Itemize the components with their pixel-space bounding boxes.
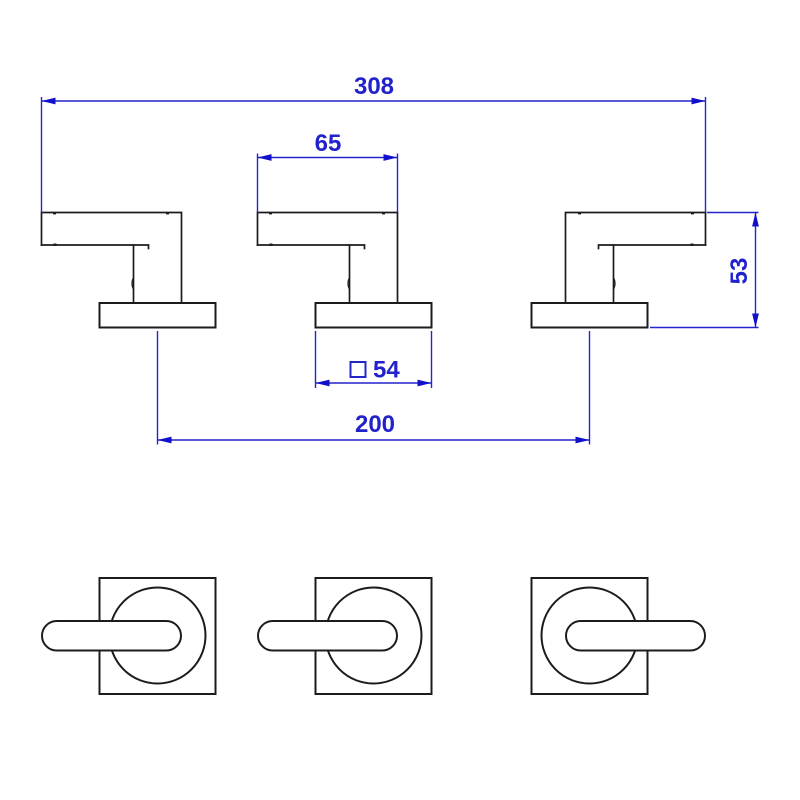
dim 200 line [158, 439, 590, 441]
dim 65 arrows [258, 154, 272, 161]
left handle neck arc [132, 278, 134, 290]
dim 54 arrows [316, 380, 330, 387]
middle handle base plate [316, 303, 432, 328]
dim 53 arrows [752, 213, 759, 227]
dim 54 extension lines [315, 331, 317, 388]
middle lever front [258, 621, 397, 651]
svg-text:65: 65 [315, 130, 342, 157]
left handle base plate [100, 303, 216, 328]
dim 54 line [316, 382, 432, 384]
dim 308 arrows [42, 98, 56, 105]
right handle neck arc [614, 278, 616, 290]
square symbol of 54 [351, 362, 366, 377]
dim 53 extension lines [707, 212, 759, 214]
dim 53 line [755, 213, 757, 328]
middle handle neck arc [348, 278, 350, 290]
svg-text:200: 200 [355, 411, 395, 438]
left handle stem edge [133, 245, 135, 303]
dim 200 extension lines [157, 331, 159, 445]
right handle stem edge [613, 245, 615, 303]
left handle lever outline [42, 213, 182, 304]
dim 65 line [258, 157, 398, 159]
middle handle lever underside [258, 245, 365, 249]
svg-text:308: 308 [354, 73, 394, 100]
middle handle stem edge [349, 245, 351, 303]
middle handle lever outline [258, 213, 398, 304]
right flange circle [542, 588, 638, 684]
dim 308 extension lines [41, 97, 43, 213]
dim 65 extension lines [257, 154, 259, 213]
right handle lever underside [599, 245, 706, 249]
svg-text:54: 54 [373, 357, 400, 384]
svg-text:53: 53 [726, 258, 753, 285]
right handle lever outline [566, 213, 706, 304]
tick nubs on levers [53, 212, 694, 246]
left handle lever underside [42, 245, 149, 249]
right lever front [566, 621, 705, 651]
dim 200 arrows [158, 437, 172, 444]
left flange circle [110, 588, 206, 684]
right handle base plate [532, 303, 648, 328]
left lever front [42, 621, 181, 651]
arrowheads [42, 98, 759, 444]
dim 308 line [42, 100, 706, 102]
left escutcheon square [100, 578, 216, 694]
middle flange circle [326, 588, 422, 684]
middle escutcheon square [316, 578, 432, 694]
right escutcheon square [532, 578, 648, 694]
